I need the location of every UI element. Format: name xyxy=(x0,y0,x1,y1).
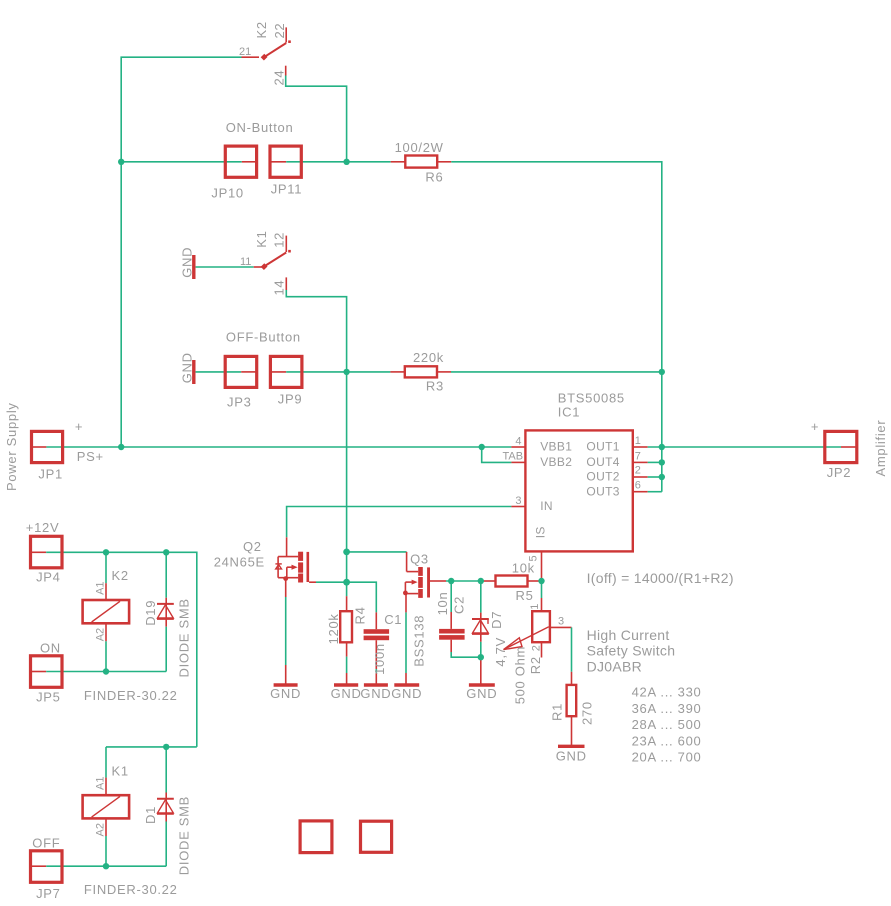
wire OUT4 link xyxy=(648,461,662,463)
wire Q3 source to GND xyxy=(405,673,407,685)
wire OFF row right segment xyxy=(451,371,662,373)
svg-text:K2: K2 xyxy=(254,21,269,38)
label 10n rotated xyxy=(435,592,450,616)
label C1 xyxy=(384,612,402,627)
pin number 1 xyxy=(635,435,641,447)
wire R5 left lead xyxy=(482,580,496,582)
label 100n rotated xyxy=(372,643,387,675)
pin name OUT1 xyxy=(586,440,619,454)
wire OFF row left segment xyxy=(196,371,242,373)
node junction Q2 drain row xyxy=(343,549,350,556)
node junction K1 relay row / D1 xyxy=(163,744,169,750)
ground GND bar under Q2 xyxy=(274,683,298,686)
svg-text:Power Supply: Power Supply xyxy=(4,402,19,491)
pin number 3 xyxy=(515,495,521,507)
wire D1 top lead red xyxy=(165,793,167,822)
label FINDER-30.22 upper xyxy=(84,688,178,703)
node junction +12V row / D19 xyxy=(163,549,169,555)
label Q2 xyxy=(243,539,262,554)
svg-text:R3: R3 xyxy=(426,379,444,394)
svg-text:GND: GND xyxy=(556,748,587,763)
wire IC pin 4 stub xyxy=(511,446,525,448)
svg-text:OUT4: OUT4 xyxy=(586,455,619,469)
svg-text:High Current: High Current xyxy=(587,627,670,643)
svg-text:Q2: Q2 xyxy=(243,539,262,554)
wire R4 top lead red xyxy=(346,596,348,611)
svg-text:VBB1: VBB1 xyxy=(540,440,572,454)
wire OUT2 link xyxy=(648,476,662,478)
svg-text:6: 6 xyxy=(635,479,641,491)
wire IS node down to R2 xyxy=(541,581,543,598)
wire JP9 pin stub xyxy=(270,371,286,373)
wire Q2 source green xyxy=(285,597,287,665)
wire R1 top lead red xyxy=(571,672,573,685)
svg-text:ON: ON xyxy=(40,640,61,655)
label K1 contact rotated xyxy=(254,230,269,247)
wire ON row right segment down to OUT3 row xyxy=(451,162,662,492)
label GND rotated at K1 contact xyxy=(180,247,195,278)
svg-text:GND: GND xyxy=(180,352,195,383)
wire OUT3 link xyxy=(648,491,662,493)
node junction JP7 row / K1 coil A2 xyxy=(103,863,109,869)
label R6 xyxy=(425,170,443,185)
wire JP7 pin stub xyxy=(31,865,47,867)
relay coil K1 xyxy=(83,795,130,818)
wire K1 coil A1 lead green xyxy=(105,747,107,778)
pin number 3 at R2 xyxy=(558,616,564,628)
pin name VBB2 xyxy=(540,455,572,469)
svg-text:K1: K1 xyxy=(254,230,269,247)
label PS+ xyxy=(77,449,104,464)
node junction C2 top xyxy=(448,578,454,584)
svg-text:C2: C2 xyxy=(451,596,466,614)
svg-text:4: 4 xyxy=(515,435,521,447)
label JP11 xyxy=(271,181,302,196)
node junction PS+ row xyxy=(118,444,124,450)
pin number 6 xyxy=(635,479,641,491)
label Safety Switch xyxy=(587,643,676,659)
node junction TAB branch xyxy=(479,444,485,450)
transistor Q3 BSS138 MOSFET xyxy=(403,552,446,598)
svg-text:IN: IN xyxy=(540,499,553,513)
svg-text:OUT3: OUT3 xyxy=(586,484,619,498)
label C2 rotated xyxy=(451,596,466,614)
svg-text:270: 270 xyxy=(580,701,595,725)
wire K1 coil A2 lead green xyxy=(105,836,107,866)
svg-text:2: 2 xyxy=(635,465,641,477)
svg-text:OUT1: OUT1 xyxy=(586,440,619,454)
label DIODE SMB rotated lower xyxy=(176,796,191,875)
label D1 rotated xyxy=(143,806,158,824)
svg-text:PS+: PS+ xyxy=(77,449,104,464)
wire R6 left lead xyxy=(391,161,406,163)
resistor R5 body xyxy=(496,576,528,587)
wire D7 top lead red xyxy=(480,613,482,642)
svg-text:+12V: +12V xyxy=(26,520,60,535)
zener diode D7 4,7V xyxy=(472,619,489,634)
svg-text:23A ... 600: 23A ... 600 xyxy=(632,733,702,748)
relay contact K2 (pins 21/22/24) xyxy=(242,27,291,75)
label GND under R4 xyxy=(331,686,362,701)
label 10k value of R5 xyxy=(512,560,535,575)
svg-text:FINDER-30.22: FINDER-30.22 xyxy=(84,882,178,897)
wire junction to C1 top xyxy=(347,582,377,612)
wire JP11 pin stub xyxy=(270,161,286,163)
wire Q2 gate to junction xyxy=(316,581,347,583)
wire IC pin 1 OUT1 stub xyxy=(633,446,648,448)
wire IC pin 5 IS stub xyxy=(541,551,543,581)
label 500 Ohm rotated xyxy=(513,646,528,704)
svg-text:VBB2: VBB2 xyxy=(540,455,572,469)
connector JP10 xyxy=(225,146,256,177)
label JP5 xyxy=(36,690,61,705)
wire +12V row and drop to K1 relay row xyxy=(46,552,197,747)
label A1 rotated at K1 coil xyxy=(94,777,106,790)
pin number 21 xyxy=(239,46,251,58)
svg-text:BSS138: BSS138 xyxy=(412,615,427,667)
wire C2 bottom to D7 column xyxy=(451,652,481,657)
svg-text:R6: R6 xyxy=(425,170,443,185)
label table row 42A xyxy=(632,685,702,700)
svg-text:21: 21 xyxy=(239,46,251,58)
op-amp IC1 BTS50085 box xyxy=(525,430,632,551)
wire D19 bottom to JP5 row xyxy=(165,627,167,672)
label GND rotated at OFF row xyxy=(180,352,195,383)
svg-text:120k: 120k xyxy=(326,613,341,644)
label BTS50085 xyxy=(558,390,625,405)
svg-text:A2: A2 xyxy=(94,823,106,836)
pin name OUT2 xyxy=(586,470,619,484)
relay coil K2 xyxy=(83,600,130,623)
node junction +12V row / K2 coil xyxy=(103,549,109,555)
label K1 coil xyxy=(112,763,129,778)
pin name IS rotated with line xyxy=(534,526,548,538)
node junction JP5 row / K2 coil A2 xyxy=(103,668,109,674)
wire K1 coil A2 stub red xyxy=(105,818,107,836)
wire K1 relay row xyxy=(106,746,197,748)
resistor R3 body xyxy=(405,366,437,377)
connector JP1 xyxy=(32,431,63,462)
svg-text:GND: GND xyxy=(466,686,497,701)
wire Q3 gate link xyxy=(446,580,482,582)
svg-text:36A ... 390: 36A ... 390 xyxy=(632,701,702,716)
label JP1 xyxy=(38,466,63,481)
svg-text:12: 12 xyxy=(271,232,286,248)
wire K2 coil A2 stub red xyxy=(105,623,107,641)
wire R2 wiper down to R1 xyxy=(571,627,573,671)
label table row 23A xyxy=(632,733,702,748)
svg-text:JP3: JP3 xyxy=(227,394,252,409)
wire IC pin 2 OUT2 stub xyxy=(633,476,648,478)
svg-text:7: 7 xyxy=(635,450,641,462)
wire D19 top lead green xyxy=(165,552,167,597)
resistor R1 body xyxy=(567,685,577,716)
connector JP7 xyxy=(31,851,63,883)
label Power Supply rotated xyxy=(4,402,19,491)
label JP2 xyxy=(827,465,852,480)
label GND under D7 xyxy=(466,686,497,701)
pin number 24 rotated xyxy=(272,70,287,86)
label table row 20A xyxy=(632,750,702,765)
ground GND bar under R1 xyxy=(558,745,585,748)
svg-text:OFF-Button: OFF-Button xyxy=(226,330,301,345)
wire TAB branch xyxy=(482,447,512,462)
node junction ON row / K2-24 xyxy=(343,159,349,165)
ground GND bar at K1 contact 11 xyxy=(192,255,195,279)
wire OFF row middle segment xyxy=(286,371,390,373)
svg-text:A1: A1 xyxy=(94,777,106,790)
wire R5 right lead xyxy=(528,580,542,582)
svg-text:I(off) = 14000/(R1+R2): I(off) = 14000/(R1+R2) xyxy=(587,570,734,586)
label DIODE SMB rotated upper xyxy=(176,598,191,677)
wire PS+ row to IC pin 4 xyxy=(46,446,511,448)
wire R2 top lead red xyxy=(541,598,543,611)
wire C2 top lead red xyxy=(450,612,452,629)
svg-text:GND: GND xyxy=(360,686,391,701)
svg-text:D7: D7 xyxy=(489,611,504,629)
diode D19 xyxy=(157,604,174,619)
label plus sign at JP1 xyxy=(75,419,83,434)
svg-text:R2: R2 xyxy=(528,656,543,674)
wire IC pin 3 stub xyxy=(511,506,525,508)
wire Q2 source red xyxy=(285,579,287,597)
connector JP3 xyxy=(225,356,257,387)
wire JP5 pin stub xyxy=(31,671,47,673)
svg-text:R1: R1 xyxy=(550,703,565,721)
svg-text:11: 11 xyxy=(240,256,251,268)
wire IN net from Q2 drain to IC pin 3 xyxy=(287,507,512,538)
wire R4 bottom green xyxy=(346,657,348,673)
pin name VBB1 xyxy=(540,440,572,454)
svg-text:GND: GND xyxy=(331,686,362,701)
svg-text:DIODE SMB: DIODE SMB xyxy=(176,796,191,875)
label High Current xyxy=(587,627,670,643)
connector JP5 xyxy=(31,656,63,688)
label A2 rotated at K1 coil xyxy=(94,823,106,836)
svg-text:JP4: JP4 xyxy=(36,570,61,585)
label R4 rotated xyxy=(353,606,368,624)
svg-text:14: 14 xyxy=(271,280,286,296)
label K2 contact rotated xyxy=(254,21,269,38)
svg-text:42A ... 330: 42A ... 330 xyxy=(632,685,702,700)
wire JP2 pin stub xyxy=(841,446,857,448)
ground GND bar at OFF row xyxy=(192,360,195,384)
label 24N65E value of Q2 xyxy=(214,555,265,570)
label JP7 xyxy=(36,886,61,901)
pin number 7 xyxy=(635,450,641,462)
svg-text:1: 1 xyxy=(635,435,641,447)
wire C2 bottom lead red xyxy=(450,640,452,652)
label R3 xyxy=(426,379,444,394)
label plus sign at JP2 xyxy=(811,419,819,434)
label K2 coil xyxy=(112,568,129,583)
node junction C2 bottom / D7 xyxy=(478,654,484,660)
pin number 4 xyxy=(515,435,521,447)
svg-text:A1: A1 xyxy=(94,581,106,594)
wire D19 top lead red xyxy=(165,598,167,627)
pin number 1 rotated at R2 xyxy=(529,604,541,610)
svg-text:3: 3 xyxy=(515,495,521,507)
svg-text:1: 1 xyxy=(529,604,541,610)
wire R3 right lead xyxy=(437,371,451,373)
label GND under C1 xyxy=(360,686,391,701)
pin number 5 rotated xyxy=(528,555,540,561)
label D19 rotated xyxy=(143,600,158,626)
label IC1 xyxy=(558,404,580,419)
svg-text:2: 2 xyxy=(530,645,542,651)
label 120k rotated xyxy=(326,613,341,644)
pin number 2 rotated at R2 xyxy=(530,645,542,651)
svg-text:+: + xyxy=(811,419,819,434)
diode D1 xyxy=(157,799,174,814)
wire IC TAB pin stub xyxy=(511,461,525,463)
wire net from K2 contact 24 down to ON row xyxy=(286,76,347,162)
wire D1 top lead green xyxy=(165,747,167,793)
svg-text:JP2: JP2 xyxy=(827,465,852,480)
label OFF-Button xyxy=(226,330,301,345)
ground GND bar under C1 xyxy=(364,683,388,686)
wire OFF row vertical down to Q2 area xyxy=(346,372,348,596)
label Amplifier rotated xyxy=(873,420,888,477)
pin number 22 rotated xyxy=(272,23,287,39)
wire K1 coil A1 stub red xyxy=(105,778,107,796)
label 220k value of R3 xyxy=(413,350,444,365)
svg-text:GND: GND xyxy=(180,247,195,278)
label FINDER-30.22 lower xyxy=(84,882,178,897)
wire JP7 row xyxy=(46,865,166,867)
node junction OUT1 xyxy=(659,444,665,450)
pin number 2 xyxy=(635,465,641,477)
node junction D7 top xyxy=(478,578,484,584)
svg-text:R4: R4 xyxy=(353,606,368,624)
capacitor C1 plates xyxy=(364,629,390,640)
svg-text:Safety Switch: Safety Switch xyxy=(587,643,676,659)
svg-text:Amplifier: Amplifier xyxy=(873,420,888,477)
ground GND bar under R4 xyxy=(334,683,358,686)
svg-text:C1: C1 xyxy=(384,612,402,627)
node junction IS / R2 xyxy=(538,578,544,584)
svg-text:GND: GND xyxy=(391,686,422,701)
unconnected pad square left xyxy=(300,821,332,853)
wire JP5 row xyxy=(46,671,166,673)
ground GND bar under D7 xyxy=(469,683,495,686)
label JP4 xyxy=(36,570,61,585)
svg-text:JP5: JP5 xyxy=(36,690,61,705)
label ON-Button xyxy=(226,120,294,135)
label R5 xyxy=(516,588,534,603)
wire R4 bottom lead red xyxy=(346,642,348,656)
connector JP4 xyxy=(31,536,63,568)
wire net from K2 contact 21 down to PS+ row xyxy=(121,57,241,447)
pin number 12 rotated xyxy=(271,232,286,248)
label BSS138 rotated xyxy=(412,615,427,667)
relay contact K1 (pins 11/12/14) xyxy=(261,236,291,290)
pin name TAB xyxy=(503,451,524,463)
wire ON row left segment xyxy=(121,161,242,163)
node junction OUT2 xyxy=(659,474,665,480)
unconnected pad square right xyxy=(361,821,392,852)
potentiometer R2 wiper arrow xyxy=(504,627,549,650)
wire K2 coil A1 stub red xyxy=(105,583,107,600)
wire R2 wiper pin 3 xyxy=(550,626,572,628)
label R1 rotated xyxy=(550,703,565,721)
ground GND bar under Q3 xyxy=(394,683,419,686)
wire R1 bottom lead to GND xyxy=(571,716,573,746)
svg-text:4,7V: 4,7V xyxy=(493,637,508,667)
label 270 rotated xyxy=(580,701,595,725)
connector JP2 xyxy=(825,431,857,462)
label +12V xyxy=(26,520,60,535)
svg-text:JP7: JP7 xyxy=(36,886,61,901)
label JP9 xyxy=(278,392,303,407)
connector JP9 xyxy=(270,356,302,387)
wire C1 to GND xyxy=(375,673,377,685)
svg-text:BTS50085: BTS50085 xyxy=(558,390,625,405)
pin name OUT3 xyxy=(586,484,619,498)
node junction OUT4 xyxy=(659,459,665,465)
svg-text:20A ... 700: 20A ... 700 xyxy=(632,750,702,765)
svg-text:24: 24 xyxy=(272,70,287,86)
svg-text:3: 3 xyxy=(558,616,564,628)
pin name OUT4 xyxy=(586,455,619,469)
svg-text:OFF: OFF xyxy=(32,836,60,851)
label GND under Q2 xyxy=(270,686,301,701)
label table row 36A xyxy=(632,701,702,716)
svg-text:R5: R5 xyxy=(516,588,534,603)
svg-text:500 Ohm: 500 Ohm xyxy=(513,646,528,704)
wire K2 coil A2 lead green xyxy=(105,641,107,671)
node junction OFF row / R6 vertical xyxy=(659,369,665,375)
wire R4 to GND xyxy=(346,673,348,685)
wire D7 top lead green xyxy=(480,581,482,613)
connector JP11 xyxy=(270,146,301,177)
resistor R6 body xyxy=(405,156,437,168)
svg-text:OUT2: OUT2 xyxy=(586,470,619,484)
transistor Q2 24N65E MOSFET xyxy=(275,537,316,582)
svg-text:JP10: JP10 xyxy=(211,185,243,200)
pin number 14 rotated xyxy=(271,280,286,296)
svg-text:JP1: JP1 xyxy=(38,466,63,481)
svg-text:JP9: JP9 xyxy=(278,392,303,407)
wire C2 top lead xyxy=(450,581,452,612)
wire C1 top lead red xyxy=(375,612,377,629)
svg-text:Q3: Q3 xyxy=(410,552,429,567)
wire D7 to GND xyxy=(480,657,482,685)
label OFF xyxy=(32,836,60,851)
wire Q3 source red xyxy=(405,594,407,613)
wire JP3 pin stub xyxy=(241,371,257,373)
svg-text:22: 22 xyxy=(272,23,287,39)
potentiometer R2 body xyxy=(532,611,550,642)
svg-text:220k: 220k xyxy=(413,350,444,365)
label DJ0ABR xyxy=(587,659,642,675)
wire K1 contact 11 red stub xyxy=(254,266,262,268)
svg-text:K1: K1 xyxy=(112,763,129,778)
pin name IN xyxy=(540,499,553,513)
node junction OFF row / K1-14 xyxy=(343,369,349,375)
label JP3 xyxy=(227,394,252,409)
wire Q2 drain junction to Q3 drain xyxy=(347,551,407,553)
label GND under R1 xyxy=(556,748,587,763)
svg-text:D1: D1 xyxy=(143,806,158,824)
svg-text:D19: D19 xyxy=(143,600,158,626)
svg-text:24N65E: 24N65E xyxy=(214,555,265,570)
wire Q2 source to GND xyxy=(285,665,287,685)
wire IC pin 6 OUT3 stub xyxy=(633,491,648,493)
wire D1 bottom to JP7 row xyxy=(165,822,167,867)
svg-text:K2: K2 xyxy=(112,568,129,583)
wire OUT1 row to JP2 xyxy=(648,446,841,448)
